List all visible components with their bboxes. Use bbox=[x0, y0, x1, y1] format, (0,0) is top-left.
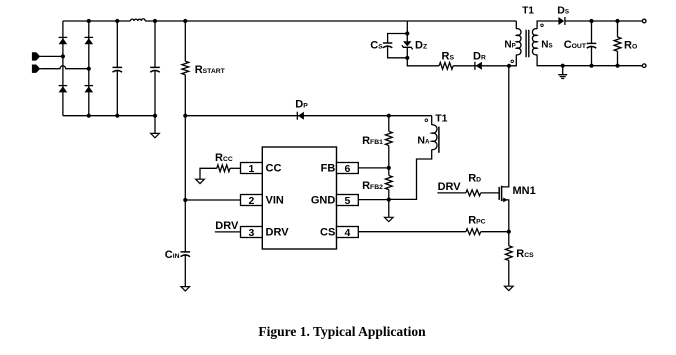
ground feedback divider bbox=[385, 217, 394, 221]
node AC1-bridge junction bbox=[61, 54, 65, 58]
wire Rcc to pin1 bbox=[230, 167, 241, 169]
wire snubber drop bbox=[406, 21, 408, 41]
transformer T1 secondary winding NS bbox=[532, 29, 537, 55]
wire secondary top lead bbox=[537, 21, 558, 29]
capacitor bulk 1 bbox=[113, 66, 123, 68]
svg-text:GND: GND bbox=[311, 195, 336, 207]
node source junction bbox=[507, 230, 511, 234]
resistor RCS bbox=[505, 246, 512, 261]
node drain junction bbox=[507, 64, 511, 68]
node Ro bottom bbox=[615, 64, 619, 68]
svg-text:CS: CS bbox=[320, 227, 335, 239]
wire DRV to RD bbox=[437, 192, 466, 194]
resistor RD bbox=[466, 190, 481, 196]
svg-text:COUT: COUT bbox=[564, 39, 587, 51]
inductor L1 (EMI filter) bbox=[130, 19, 145, 21]
wire Rcc ground stem bbox=[200, 168, 217, 179]
wire DRV into pin3 bbox=[215, 231, 241, 233]
pin 5 box bbox=[337, 195, 359, 206]
svg-text:6: 6 bbox=[344, 163, 350, 175]
node Rstart/Dp junction bbox=[183, 114, 187, 118]
pin 6 box bbox=[337, 163, 359, 174]
svg-text:RD: RD bbox=[468, 173, 481, 185]
wire Rstart top lead bbox=[184, 21, 186, 61]
wire pin5 GND to divider bbox=[358, 199, 389, 201]
wire top HV bus right of inductor bbox=[145, 20, 516, 22]
wire CIN bottom lead bbox=[184, 255, 186, 287]
wire Rpc to source node bbox=[481, 231, 509, 233]
pin 3 box bbox=[241, 227, 263, 238]
caption Figure 1 bbox=[4, 324, 676, 340]
node FB junction bbox=[387, 166, 391, 170]
node Rstart top bbox=[183, 19, 187, 23]
node AC2-bridge junction bbox=[87, 67, 91, 71]
pin 2 box bbox=[241, 195, 263, 206]
resistor RO bbox=[614, 37, 621, 51]
wire RFB1 to FB node bbox=[388, 146, 390, 176]
ground input section bbox=[151, 133, 160, 137]
resistor RFB1 bbox=[385, 131, 392, 145]
node GND junction bbox=[387, 198, 391, 202]
svg-text:NP: NP bbox=[504, 39, 515, 50]
wire Rcs bottom lead bbox=[508, 260, 510, 286]
wire Dp anode side bbox=[185, 115, 388, 117]
diode DR bbox=[474, 62, 476, 70]
AC input terminal 2 bbox=[32, 65, 40, 73]
pin 1 box bbox=[241, 163, 263, 174]
node bridge-right bottom bbox=[87, 114, 91, 118]
svg-text:RCC: RCC bbox=[215, 152, 233, 164]
wire aux winding top lead bbox=[431, 116, 433, 125]
node Cout bottom bbox=[589, 64, 593, 68]
output terminal positive bbox=[642, 19, 646, 23]
capacitor COUT bbox=[587, 42, 597, 44]
wire top HV bus left of inductor bbox=[63, 20, 130, 22]
svg-text:FB: FB bbox=[321, 163, 336, 175]
ground CIN bbox=[181, 287, 190, 291]
resistor RSTART bbox=[182, 61, 189, 74]
svg-text:DS: DS bbox=[557, 4, 569, 16]
wire input ground stem bbox=[154, 116, 156, 134]
AC input terminal 1 bbox=[32, 52, 40, 60]
svg-text:NS: NS bbox=[541, 39, 552, 50]
wire AC2 to bridge with crossover hop bbox=[40, 66, 89, 69]
output terminal negative bbox=[642, 64, 646, 68]
transistor MN1 channel bar bbox=[501, 186, 503, 201]
svg-text:RO: RO bbox=[624, 40, 637, 52]
node secondary ground bbox=[561, 64, 565, 68]
svg-text:DP: DP bbox=[295, 99, 308, 111]
wire secondary bottom rail bbox=[537, 55, 642, 66]
transistor MN1 source lead bbox=[502, 200, 509, 232]
node Cout top bbox=[589, 19, 593, 23]
svg-text:RFB2: RFB2 bbox=[362, 180, 383, 192]
svg-text:CS: CS bbox=[370, 40, 383, 52]
svg-text:RSTART: RSTART bbox=[195, 64, 226, 76]
diode DP bbox=[296, 112, 298, 120]
wire bridge bottom rail bbox=[63, 115, 155, 117]
svg-text:RCS: RCS bbox=[516, 248, 534, 260]
ground Rcc bbox=[196, 179, 205, 183]
resistor RCC bbox=[217, 165, 230, 172]
svg-text:CC: CC bbox=[266, 163, 282, 175]
svg-text:DRV: DRV bbox=[266, 227, 290, 239]
diode D4 (bridge lower-right) bbox=[85, 85, 94, 87]
ground RCS bbox=[505, 286, 514, 290]
wire Cs branch bbox=[388, 34, 408, 58]
transformer T1 primary winding NP bbox=[516, 29, 521, 55]
diode D1 (bridge upper-left) bbox=[59, 36, 68, 38]
wire bulk cap 1 bbox=[116, 21, 118, 116]
wire secondary output top rail bbox=[565, 20, 643, 22]
transistor MN1 drain lead bbox=[502, 66, 509, 187]
svg-text:MN1: MN1 bbox=[513, 185, 536, 197]
svg-text:2: 2 bbox=[248, 195, 254, 207]
wire bulk cap 2 bbox=[154, 21, 156, 116]
svg-text:T1: T1 bbox=[435, 112, 447, 124]
svg-text:RFB1: RFB1 bbox=[362, 135, 383, 147]
capacitor CIN bbox=[181, 251, 191, 253]
phase dot secondary bbox=[541, 24, 544, 27]
node cap2 bottom bbox=[153, 114, 157, 118]
svg-text:DR: DR bbox=[473, 50, 486, 62]
wire Rcs top lead bbox=[508, 232, 510, 246]
svg-text:DRV: DRV bbox=[438, 181, 462, 193]
svg-text:3: 3 bbox=[248, 227, 254, 239]
node VIN junction bbox=[183, 198, 187, 202]
node snubber bottom bbox=[405, 56, 409, 60]
core lines T1 bbox=[526, 30, 529, 58]
wire primary top lead bbox=[515, 21, 517, 29]
core line aux winding bbox=[438, 127, 440, 153]
wire RFB1 top lead bbox=[388, 116, 390, 132]
svg-text:DRV: DRV bbox=[215, 220, 239, 232]
resistor RFB2 bbox=[385, 176, 392, 190]
ground secondary (earth) bbox=[558, 66, 567, 79]
node snubber top bbox=[405, 31, 409, 35]
capacitor bulk 2 bbox=[150, 66, 160, 68]
svg-text:RPC: RPC bbox=[468, 214, 485, 226]
wire AC1 to bridge bbox=[40, 55, 63, 57]
zener diode DZ bbox=[403, 41, 411, 46]
bridge left branch wire bbox=[62, 21, 64, 116]
node cap1 top bbox=[115, 19, 119, 23]
svg-text:NA: NA bbox=[417, 134, 430, 146]
svg-text:VIN: VIN bbox=[266, 195, 284, 207]
resistor RS bbox=[439, 62, 453, 69]
diode DS bbox=[564, 17, 566, 25]
bridge right branch wire bbox=[88, 21, 90, 116]
wire RFB2 bottom lead bbox=[388, 190, 390, 218]
wire aux winding bottom to GND node bbox=[389, 150, 432, 200]
wire primary bottom lead bbox=[509, 55, 516, 66]
wire Dp node to aux winding bbox=[389, 115, 432, 117]
phase dot aux winding bbox=[425, 119, 428, 122]
node bridge-right top bbox=[87, 19, 91, 23]
svg-text:4: 4 bbox=[344, 227, 350, 239]
wire Rs to Dr bbox=[453, 65, 509, 67]
transformer T1 auxiliary winding NA bbox=[432, 125, 437, 150]
node cap2 top bbox=[153, 19, 157, 23]
svg-text:RS: RS bbox=[442, 50, 455, 62]
wire pin6 FB to divider bbox=[358, 167, 389, 169]
wire Rstart to VIN node bbox=[184, 75, 186, 252]
wire RD to gate bbox=[481, 192, 500, 194]
wire VIN node to pin2 bbox=[185, 199, 240, 201]
svg-text:1: 1 bbox=[248, 163, 254, 175]
svg-text:5: 5 bbox=[344, 195, 350, 207]
svg-text:CIN: CIN bbox=[165, 249, 180, 261]
resistor RPC bbox=[466, 229, 481, 235]
transistor MN1 gate bar bbox=[498, 187, 500, 200]
diode D2 (bridge upper-right) bbox=[85, 36, 94, 38]
pin 4 box bbox=[337, 227, 359, 238]
svg-text:T1: T1 bbox=[522, 5, 534, 16]
phase dot primary bbox=[511, 60, 514, 63]
node feedback top junction bbox=[387, 114, 391, 118]
svg-text:DZ: DZ bbox=[415, 40, 427, 52]
capacitor CS snubber bbox=[383, 42, 392, 44]
diode D3 (bridge lower-left) bbox=[59, 85, 68, 87]
node Ro top bbox=[615, 19, 619, 23]
wire Dz to clamp line bbox=[407, 47, 439, 66]
wire pin4 CS to Rpc bbox=[358, 231, 466, 233]
op-amp/controller IC U1 body bbox=[262, 147, 336, 249]
node cap1 bottom bbox=[115, 114, 119, 118]
transistor MN1 source arrow bbox=[503, 198, 508, 203]
wire Ro leads bbox=[617, 21, 619, 66]
